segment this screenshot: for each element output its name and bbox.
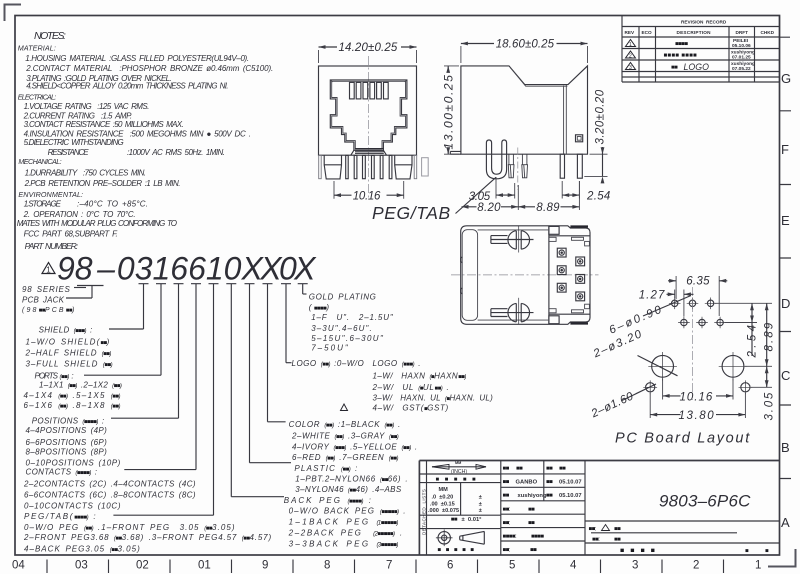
- svg-text:1–W/ HAXN (■HAXN■■): 1–W/ HAXN (■HAXN■■): [373, 372, 467, 381]
- svg-text:07.01.25: 07.01.25: [732, 55, 751, 61]
- svg-text:4: 4: [570, 560, 577, 572]
- rev triangle 3: [626, 63, 636, 70]
- svg-text:4–IVORY (■■■) .5–YELLOE (■■) .: 4–IVORY (■■■) .5–YELLOE (■■) .: [292, 442, 418, 451]
- svg-text:3–3U".4–6U".: 3–3U".4–6U".: [311, 324, 373, 333]
- bottom zone ticks: [47, 560, 724, 574]
- left breakdown labels: [22, 285, 272, 553]
- right side small details: [549, 237, 589, 313]
- svg-text:LOGO (■■) :0–W/O LOGO (■■■) .: LOGO (■■) :0–W/O LOGO (■■■) .: [292, 359, 421, 368]
- dimension 13.80 pcb: [650, 393, 745, 422]
- svg-text:8.20: 8.20: [477, 202, 501, 214]
- dimension 13.00±0.25: [442, 66, 460, 154]
- third angle projection symbols: [436, 530, 484, 547]
- svg-text:(INCH): (INCH): [451, 469, 467, 475]
- svg-text:FCC PART 68,SUBPART F.: FCC PART 68,SUBPART F.: [24, 229, 118, 238]
- svg-text:PLASTIC (■■) :: PLASTIC (■■) :: [294, 464, 358, 473]
- dimension 3.05: [469, 177, 515, 203]
- svg-text:COLOR (■■) :1–BLACK (■■) .: COLOR (■■) :1–BLACK (■■) .: [289, 420, 401, 429]
- svg-text:05.10.07: 05.10.07: [559, 493, 582, 499]
- left shield leg: [319, 155, 322, 178]
- svg-text:■■: ■■: [546, 493, 553, 499]
- contact pins: [346, 155, 392, 178]
- svg-text:■■: ■■: [528, 520, 535, 526]
- svg-text:■■: ■■: [546, 480, 553, 486]
- svg-text:(98■■PCB■■): (98■■PCB■■): [22, 307, 76, 314]
- svg-text:ECO: ECO: [642, 30, 653, 35]
- svg-text:DESCRIPTION: DESCRIPTION: [677, 30, 712, 35]
- bottom zone labels: [12, 560, 761, 572]
- body outline with roof notch: [461, 66, 588, 154]
- svg-text:ENVIRONMENTAL:: ENVIRONMENTAL:: [18, 190, 83, 199]
- bottom peg bottom-view: [491, 298, 534, 325]
- wire back peg leader: [231, 496, 284, 498]
- svg-text:■■■■: ■■■■: [675, 42, 688, 48]
- svg-text:98–0316610XX0X: 98–0316610XX0X: [57, 251, 317, 287]
- svg-text:BACK PEG (■■■■) :: BACK PEG (■■■■) :: [284, 496, 373, 505]
- svg-text:6–6CONTACTS (6C) .8–8CONTACTS: 6–6CONTACTS (6C) .8–8CONTACTS (8C): [24, 491, 196, 500]
- svg-text:18.60±0.25: 18.60±0.25: [496, 39, 555, 51]
- sheet corner mark bottom-right: [768, 549, 796, 567]
- svg-text:8–8POSITIONS (8P): 8–8POSITIONS (8P): [26, 448, 108, 457]
- svg-text:1.HOUSING MATERIAL :GLASS FILL: 1.HOUSING MATERIAL :GLASS FILLED POLYEST…: [25, 54, 249, 63]
- svg-text:0–10CONTACTS (10C): 0–10CONTACTS (10C): [24, 502, 121, 511]
- shield seam double vertical: [564, 85, 567, 154]
- svg-text:CONTACTS (■■■■) :: CONTACTS (■■■■) :: [26, 468, 98, 477]
- svg-text:1–PBT.2–NYLON66 (■■66) .: 1–PBT.2–NYLON66 (■■66) .: [295, 475, 408, 484]
- svg-text:1–W/O SHIELD(■■): 1–W/O SHIELD(■■): [26, 337, 111, 346]
- svg-text:C: C: [781, 368, 790, 383]
- svg-text:F: F: [781, 142, 789, 157]
- svg-text:2. OPERATION : 0°C TO 70°C.: 2. OPERATION : 0°C TO 70°C.: [23, 210, 136, 219]
- svg-text:MM: MM: [439, 487, 449, 493]
- warning triangle at 4-W/ GST row: [341, 404, 348, 411]
- small holes 0.90 upper row: [669, 298, 717, 310]
- svg-text:■■:: ■■:: [592, 537, 600, 543]
- body outline: [461, 226, 590, 324]
- svg-text:1: 1: [629, 42, 632, 48]
- svg-text:± 0.01°: ± 0.01°: [462, 517, 483, 523]
- svg-text:NOTES:: NOTES:: [34, 30, 66, 42]
- dimension 1.27: [639, 289, 694, 316]
- side view drawing: [372, 39, 611, 223]
- right pin 1: [560, 154, 564, 178]
- svg-text:2–HALF SHIELD (■■): 2–HALF SHIELD (■■): [25, 349, 112, 358]
- svg-text:4–1X4 (■■) .5–1X5 (■■): 4–1X4 (■■) .5–1X5 (■■): [24, 391, 121, 400]
- svg-text:■■:: ■■:: [503, 520, 511, 526]
- svg-text:DETACHED LISTS: DETACHED LISTS: [421, 489, 426, 535]
- svg-text:■■: ■■: [503, 466, 510, 472]
- big holes 3.20: [648, 352, 747, 381]
- revision record table: [622, 16, 780, 83]
- svg-text:■■:: ■■:: [503, 548, 511, 554]
- svg-text:■■:: ■■:: [503, 507, 511, 513]
- svg-text:■■: ■■: [530, 548, 537, 554]
- svg-text:■■:: ■■:: [589, 527, 597, 533]
- barbed pin 2: [522, 154, 528, 178]
- svg-text:POSITIONS (■■■■) :: POSITIONS (■■■■) :: [32, 417, 105, 426]
- svg-text:1.STORAGE: 1.STORAGE: [24, 200, 62, 209]
- front view drawing: [319, 42, 417, 203]
- svg-text:4–W/ GST(■GST): 4–W/ GST(■GST): [373, 404, 449, 413]
- svg-text:10.16: 10.16: [680, 391, 714, 403]
- svg-text:PEG/TAB: PEG/TAB: [372, 203, 451, 223]
- right shield leg: [414, 155, 417, 178]
- drft names: [731, 38, 755, 72]
- svg-text:■: ■: [765, 549, 769, 555]
- svg-text:■■: ■■: [528, 507, 535, 513]
- dimension 6.35: [668, 276, 727, 316]
- svg-text:±: ±: [479, 508, 482, 514]
- svg-text:2–WHITE (■■) .3–GRAY (■■): 2–WHITE (■■) .3–GRAY (■■): [291, 431, 399, 440]
- svg-text:3–W/ HAXN. UL (■HAXN. UL): 3–W/ HAXN. UL (■HAXN. UL): [373, 394, 494, 403]
- wire peg/tab leader: [113, 514, 213, 516]
- wire 98 series bracket: [74, 287, 86, 289]
- right zone letters: [781, 71, 791, 530]
- svg-text:0–W/O BACK PEG (■■■■■) .: 0–W/O BACK PEG (■■■■■) .: [289, 507, 407, 516]
- svg-text:E: E: [781, 213, 790, 228]
- 图号 row: [589, 525, 738, 544]
- svg-text:■■: ■■: [614, 527, 621, 533]
- svg-text:3–FULL SHIELD (■■): 3–FULL SHIELD (■■): [26, 360, 113, 369]
- svg-text:0–10POSITIONS (10P): 0–10POSITIONS (10P): [26, 459, 121, 468]
- svg-text:.0 ±0.20: .0 ±0.20: [432, 495, 454, 501]
- svg-text:1–1BACK PEG (1■■■■■): 1–1BACK PEG (1■■■■■): [289, 518, 399, 527]
- svg-text:DRFT: DRFT: [736, 30, 749, 35]
- left peg: [324, 155, 341, 179]
- middle column labels: [503, 466, 582, 554]
- small holes 0.90 lower row: [678, 317, 726, 329]
- part number breakdown: [22, 251, 493, 554]
- svg-text:.00 ±0.15: .00 ±0.15: [430, 501, 455, 507]
- svg-text:0–W/O PEG (■■) .1–FRONT PEG 3: 0–W/O PEG (■■) .1–FRONT PEG 3.05 (■■3.05…: [24, 523, 236, 532]
- svg-text:A: A: [781, 515, 790, 530]
- left wall notch jogs: [461, 257, 463, 294]
- svg-text:9: 9: [262, 560, 268, 572]
- svg-text:1–F U". 2–1.5U": 1–F U". 2–1.5U": [311, 313, 394, 322]
- svg-text:4–4POSITIONS (4P): 4–4POSITIONS (4P): [26, 426, 108, 435]
- pc board layout: [589, 276, 776, 447]
- svg-text:■■: ■■: [546, 466, 553, 472]
- svg-text:CHKD: CHKD: [761, 30, 775, 35]
- svg-text:8.89: 8.89: [536, 202, 560, 214]
- svg-text:GOLD PLATING: GOLD PLATING: [309, 293, 377, 302]
- svg-text:PCB JACK: PCB JACK: [22, 296, 65, 305]
- vertical centerline pcb: [692, 287, 694, 400]
- socket opening inner wall: [332, 81, 406, 149]
- svg-text:■■■■: ■■■■: [531, 534, 544, 540]
- svg-text:5–15U".6–30U": 5–15U".6–30U": [311, 334, 384, 343]
- holes 1.60: [643, 380, 752, 394]
- svg-text:8: 8: [324, 560, 330, 572]
- svg-text:xushiyong: xushiyong: [518, 493, 547, 499]
- svg-text:2.54: 2.54: [586, 191, 611, 203]
- socket opening outer: [330, 80, 407, 150]
- svg-text:PEG/TAB(■■■■) :: PEG/TAB(■■■■) :: [24, 512, 97, 521]
- svg-text:6–6POSITIONS (6P): 6–6POSITIONS (6P): [26, 438, 108, 447]
- svg-text:■■: ■■: [503, 493, 510, 499]
- svg-text:.000 ±0.075: .000 ±0.075: [428, 508, 459, 514]
- svg-text:03: 03: [75, 560, 88, 572]
- svg-text:REVISION RECORD: REVISION RECORD: [681, 20, 727, 25]
- svg-text:5.DIELECTRIC WITHSTANDING: 5.DIELECTRIC WITHSTANDING: [24, 138, 124, 147]
- svg-text:4.SHIELD˂COPPER ALLOY 0.20mm T: 4.SHIELD˂COPPER ALLOY 0.20mm THICKNESS P…: [26, 82, 228, 91]
- wire color leader: [268, 421, 286, 423]
- right breakdown labels: [284, 293, 493, 549]
- svg-text:PORTS (■■) :: PORTS (■■) :: [35, 372, 74, 381]
- svg-text:8.89: 8.89: [764, 321, 776, 352]
- svg-text:MATERIAL:: MATERIAL:: [18, 44, 56, 53]
- right zone ticks: [780, 37, 792, 478]
- dimension 18.60±0.25: [461, 39, 588, 63]
- svg-text:1.VOLTAGE RATING :125 VAC RMS: 1.VOLTAGE RATING :125 VAC RMS.: [24, 102, 150, 111]
- svg-text:07.05.22: 07.05.22: [732, 66, 751, 72]
- peg/tab leader line: [456, 177, 497, 213]
- svg-text:2.54: 2.54: [747, 322, 759, 359]
- svg-text:2–FRONT PEG3.68 (■■3.68) .3–FR: 2–FRONT PEG3.68 (■■3.68) .3–FRONT PEG4.5…: [23, 533, 272, 542]
- dimension 2.54 pcb: [715, 303, 772, 358]
- right pin 2: [577, 154, 582, 178]
- svg-text:PART NUMBER:: PART NUMBER:: [25, 241, 79, 251]
- ticks under digits: [139, 284, 308, 516]
- svg-text:LOGO: LOGO: [684, 62, 710, 72]
- svg-text:(■■■■): (■■■■): [309, 303, 332, 312]
- svg-text::1000V AC RMS 50Hz. 1MIN.: :1000V AC RMS 50Hz. 1MIN.: [127, 148, 225, 157]
- roof inner parallel lines: [510, 68, 567, 87]
- wire positions leader: [111, 417, 179, 419]
- phantom back peg grey bar: [422, 158, 429, 176]
- label 6-φ0.90: [607, 296, 691, 337]
- svg-text:3: 3: [632, 560, 638, 572]
- svg-text:GANBO: GANBO: [516, 480, 538, 486]
- svg-text:04: 04: [12, 560, 25, 572]
- svg-text:■■: ■■: [451, 517, 458, 523]
- svg-text:7–50U": 7–50U": [311, 344, 350, 353]
- svg-text:6–RED (■■) .7–GREEN (■■): 6–RED (■■) .7–GREEN (■■): [292, 453, 398, 462]
- svg-text:2–2CONTACTS (2C) .4–4CONTACTS: 2–2CONTACTS (2C) .4–4CONTACTS (4C): [23, 479, 196, 488]
- dimension 3.20±0.20: [584, 89, 607, 183]
- center line: [368, 56, 370, 199]
- label 2-φ3.20: [591, 328, 678, 376]
- dimension 3.05 pcb: [751, 366, 776, 420]
- contact area separator: [548, 226, 550, 324]
- svg-text:01: 01: [198, 560, 211, 572]
- svg-text:■■: ■■: [503, 480, 510, 486]
- peg hairpin loop: [486, 140, 506, 179]
- svg-text:2.CONTACT MATERIAL :PHOSPHOR: 2.CONTACT MATERIAL :PHOSPHOR BRONZE ø0.4…: [25, 64, 273, 73]
- svg-text:MATES WITH MODULAR PLUG CONFOR: MATES WITH MODULAR PLUG CONFORMING TO: [17, 219, 177, 228]
- svg-text:■: ■: [745, 549, 749, 555]
- svg-text:05.10.06: 05.10.06: [732, 43, 751, 49]
- leader turns: [66, 286, 307, 516]
- notes text block: [17, 30, 273, 251]
- side view centerline: [517, 148, 519, 191]
- svg-text:98 SERIES: 98 SERIES: [22, 285, 71, 294]
- svg-text:14.20±0.25: 14.20±0.25: [339, 42, 398, 54]
- svg-text:D: D: [781, 296, 790, 311]
- right peg: [395, 155, 412, 179]
- svg-text:MM: MM: [455, 461, 461, 465]
- svg-text:13.80: 13.80: [679, 410, 716, 422]
- wire ports leader: [84, 374, 161, 376]
- svg-text:■■■■: ■■■■: [620, 548, 661, 555]
- svg-text:2–ø1.60: 2–ø1.60: [589, 390, 636, 420]
- svg-text:■■■■■: ■■■■■: [436, 477, 482, 483]
- dimension 10.16 front: [334, 181, 404, 203]
- svg-text:SHIELD (■■■) :: SHIELD (■■■) :: [39, 326, 93, 335]
- dimension 10.16 pcb: [663, 379, 733, 404]
- svg-text:2–W/ UL (■UL■■) .: 2–W/ UL (■UL■■) .: [372, 383, 450, 392]
- contact comb teeth: [350, 82, 389, 99]
- svg-text:■■: ■■: [516, 466, 523, 472]
- tolerance values: [428, 487, 482, 514]
- wire plastic leader: [250, 462, 292, 464]
- warning triangle before part number: [42, 263, 55, 274]
- left section rows: [419, 474, 500, 529]
- svg-text:9803–6P6C: 9803–6P6C: [659, 492, 751, 511]
- bottom view drawing: [451, 226, 599, 324]
- wire contacts leader: [124, 469, 196, 471]
- sheet corner mark top-left: [5, 5, 22, 22]
- rev triangle 2: [626, 51, 636, 58]
- tol inner divider: [460, 483, 462, 516]
- svg-text:1: 1: [46, 266, 51, 275]
- svg-text:10.16: 10.16: [353, 191, 381, 203]
- svg-text:MECHANICAL:: MECHANICAL:: [18, 157, 61, 166]
- top peg bottom-view: [491, 226, 534, 253]
- svg-text:3.CONTACT RESISTANCE :50 MILLI: 3.CONTACT RESISTANCE :50 MILLIOHMS MAX.: [24, 120, 184, 129]
- right rows: [585, 521, 780, 543]
- center line horizontal: [451, 274, 599, 276]
- wire gold leader: [303, 293, 307, 295]
- svg-text:PC Board Layout: PC Board Layout: [615, 431, 751, 447]
- svg-text:6.35: 6.35: [686, 276, 710, 288]
- dimension 8.89: [518, 181, 579, 214]
- svg-text:5: 5: [509, 560, 515, 572]
- dimension 14.20±0.25: [319, 42, 417, 63]
- svg-text:RESISTANCE: RESISTANCE: [48, 148, 90, 157]
- svg-text:1–1X1 (■■) .2–1X2 (■■): 1–1X1 (■■) .2–1X2 (■■): [39, 380, 122, 389]
- shield edge dark bars: [570, 225, 588, 227]
- svg-text:ELECTRICAL:: ELECTRICAL:: [18, 93, 57, 102]
- svg-text:■■■■■■■■: ■■■■■■■■: [664, 52, 698, 59]
- title block: [419, 461, 779, 556]
- label 2-φ1.60: [589, 384, 656, 421]
- svg-text:13.00±0.25: 13.00±0.25: [442, 74, 456, 150]
- svg-text:2.CURRENT RATING :1.5 AMP.: 2.CURRENT RATING :1.5 AMP.: [23, 111, 132, 120]
- svg-text:2: 2: [629, 54, 632, 60]
- dimension 2.54: [562, 181, 610, 203]
- svg-text:B: B: [781, 440, 790, 455]
- svg-text:6–1X6 (■■) .8–1X8 (■■): 6–1X6 (■■) .8–1X8 (■■): [24, 401, 121, 410]
- svg-text:■■: ■■: [559, 466, 566, 472]
- rev triangle 1: [626, 40, 636, 47]
- latch tab hatched: [351, 149, 387, 156]
- barbed pin 1: [508, 154, 514, 178]
- svg-text:G: G: [781, 71, 791, 86]
- middle rows: [501, 474, 585, 541]
- svg-text:2–2BACK PEG (2■■■■■) .: 2–2BACK PEG (2■■■■■) .: [288, 528, 404, 537]
- table outer lines: [419, 461, 779, 556]
- svg-text:1: 1: [755, 560, 761, 572]
- solder pads 6x: [557, 248, 584, 301]
- wire shield leader: [109, 328, 144, 330]
- wire logo leader: [286, 362, 292, 364]
- dimension 8.89 pcb: [745, 303, 776, 366]
- vertical dividers: [427, 461, 586, 556]
- housing outline: [319, 66, 417, 155]
- svg-text:2: 2: [693, 560, 699, 572]
- svg-text:3: 3: [629, 65, 632, 71]
- svg-text:3.05: 3.05: [764, 391, 776, 421]
- tick under 98: [77, 285, 104, 287]
- svg-text:REV: REV: [625, 30, 636, 35]
- mm/inch arrows: [432, 461, 486, 475]
- svg-text:±: ±: [479, 501, 482, 507]
- svg-text:■■: ■■: [671, 65, 678, 71]
- svg-text:6: 6: [447, 560, 453, 572]
- svg-text:7: 7: [386, 560, 392, 572]
- svg-text:3–NYLON46 (■■46) .4–ABS: 3–NYLON46 (■■46) .4–ABS: [295, 485, 402, 494]
- svg-text:4–BACK PEG3.05 (■■3.05): 4–BACK PEG3.05 (■■3.05): [24, 544, 141, 553]
- svg-text:1.27: 1.27: [639, 289, 666, 301]
- svg-text:2.PCB RETENTION PRE–SOLDER :1: 2.PCB RETENTION PRE–SOLDER :1 LB MIN.: [24, 179, 181, 188]
- svg-text:1.DURRABILITY :750 CYCLES MIN: 1.DURRABILITY :750 CYCLES MIN.: [25, 169, 146, 178]
- svg-text:■■: ■■: [614, 537, 621, 543]
- svg-text:3.20±0.20: 3.20±0.20: [595, 89, 607, 144]
- svg-text:02: 02: [136, 560, 149, 572]
- small square hole: [576, 135, 583, 142]
- front tab left: [450, 151, 461, 154]
- svg-text:■■■■:: ■■■■:: [503, 534, 517, 540]
- svg-text:05.10.07: 05.10.07: [559, 480, 582, 486]
- svg-text:3–3BACK PEG (3■■■■■): 3–3BACK PEG (3■■■■■): [289, 539, 399, 548]
- dimension 8.20: [462, 202, 519, 214]
- inner cup pocket: [462, 230, 477, 321]
- svg-text:±: ±: [479, 495, 482, 501]
- svg-text:■■■■■: ■■■■■: [437, 548, 478, 554]
- svg-text::–40°C TO +85°C.: :–40°C TO +85°C.: [77, 200, 148, 209]
